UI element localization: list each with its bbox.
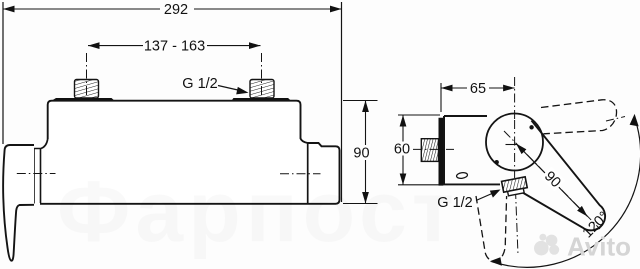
wall bolt (threaded, side) [421,139,438,162]
phantom handle down (dashed) [476,196,507,261]
side body [444,116,500,184]
label 120deg [580,209,613,242]
center mark [506,144,518,146]
svg-text:65: 65 [470,81,486,97]
dimension 292 line [3,8,342,10]
outlet nut G1/2 (hatched, tilted) [502,177,529,197]
phantom handle axis tick [606,117,625,122]
step line at right end [307,144,309,204]
phantom handle up (dashed) [541,100,617,134]
wall bolt centerline [413,148,454,150]
escutcheon bar right [230,98,292,103]
120 deg arc [492,116,640,267]
bolt centerline left [86,53,88,108]
small ellipse detail [456,172,468,179]
svg-text:292: 292 [164,2,188,18]
lever handle (front) [3,145,34,261]
solid handle (side) [514,121,605,231]
arc arrowheads [630,114,639,127]
dimension 292 label [160,2,194,16]
90 dimension along handle [504,131,600,229]
60 dimension [398,115,440,185]
svg-text:Avito: Avito [567,231,631,261]
centerline left end [17,173,56,175]
dimension 137-163 label [143,38,207,53]
leader arrow to nut [476,190,501,201]
leader arrow to right bolt [218,86,249,95]
neck curve at left end [41,139,48,149]
bolt centerline right [261,53,263,108]
65 dimension [441,83,515,112]
centerline right end [280,173,321,175]
svg-text:137 - 163: 137 - 163 [144,39,205,55]
bolt left (threaded) [75,80,99,99]
bolt right (threaded) [250,80,274,99]
main valve axis (vertical dash-dot) [514,77,516,120]
extension line left (292) [2,2,4,144]
mixer body outline (front) [40,101,340,204]
wall escutcheon (black strip) [439,118,444,186]
svg-text:Фарпост: Фарпост [57,164,459,260]
dimension 137-163 line [88,45,261,47]
small dots on circle [529,125,533,129]
svg-text:60: 60 [394,142,410,158]
Avito watermark [534,231,631,261]
svg-text:90: 90 [353,146,369,162]
cartridge flange (left, edge-on) [34,149,41,204]
valve circle [486,114,543,171]
90 dimension (front right) [343,101,378,204]
svg-text:G 1/2: G 1/2 [182,76,217,92]
escutcheon bar left [49,98,117,103]
extension line right (292/90) [341,2,343,202]
